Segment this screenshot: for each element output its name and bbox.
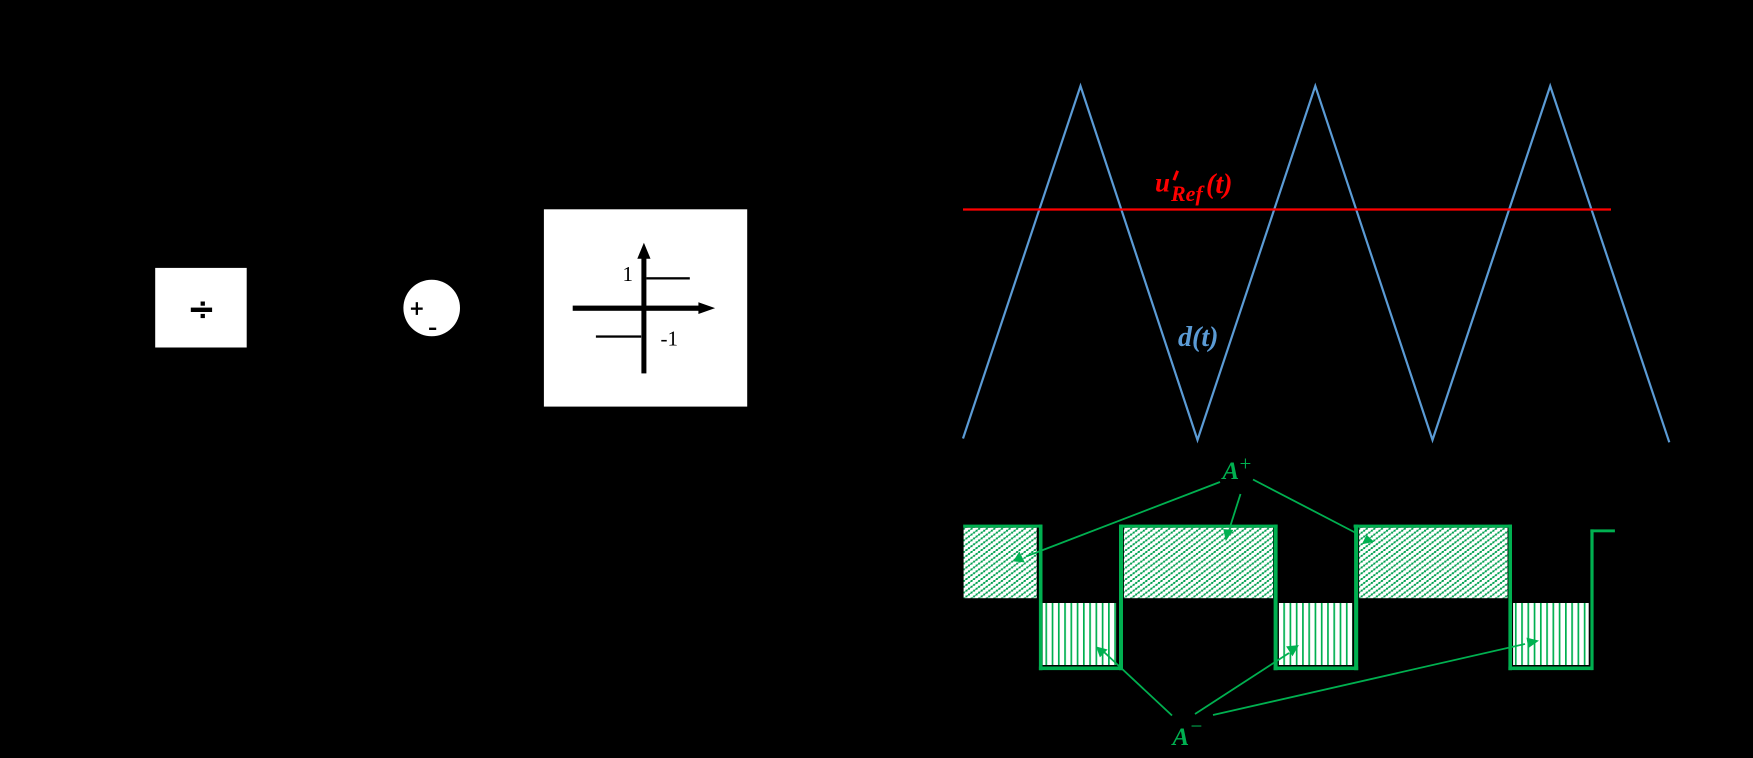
PWM falling edge T3 (1274, 525, 1278, 671)
label A- (1171, 714, 1203, 751)
divider block U1 (box with division sign) (155, 268, 247, 348)
PWM bottom pulse B3 (vertical hatch area A-) (1513, 603, 1589, 665)
svg-text:1: 1 (623, 262, 634, 286)
vertical axis (641, 255, 646, 373)
-1 saturation level line (596, 335, 641, 337)
svg-text:u: u (1155, 168, 1170, 198)
PWM P1 top border (963, 525, 1042, 528)
PWM B3 bottom border (1508, 667, 1592, 671)
A- leader line to B1 (1096, 647, 1172, 716)
PWM top pulse P2 (diagonal hatch area A+) (1124, 528, 1273, 599)
PWM top pulse P1 (diagonal hatch area A+) (964, 528, 1037, 599)
PWM bottom pulse B1 (vertical hatch area A-) (1043, 603, 1116, 665)
PWM P3 top border (1354, 525, 1512, 528)
PWM top pulse P3 (diagonal hatch area A+) (1359, 528, 1507, 599)
PWM rising edge T6 (1590, 529, 1593, 670)
horizontal axis (573, 306, 700, 311)
A+ leader line to P2 (1223, 494, 1240, 541)
reference line u'Ref(t) (963, 208, 1611, 210)
A+ leader line to P1 (1013, 482, 1220, 562)
PWM bottom pulse B2 (vertical hatch area A-) (1279, 603, 1352, 665)
A- leader line to B3 (1213, 638, 1539, 715)
svg-text:A: A (1171, 724, 1190, 751)
PWM B2 bottom border (1274, 667, 1359, 671)
PWM falling edge T5 (1508, 525, 1512, 671)
PWM B1 bottom border (1039, 667, 1123, 671)
svg-text:−: − (1191, 714, 1203, 738)
PWM P2 top border (1119, 525, 1278, 528)
svg-text:A: A (1221, 458, 1240, 485)
comparator block U2 (saturation characteristic) (544, 209, 747, 406)
A- leader line to B2 (1195, 645, 1299, 714)
+1 saturation level line (646, 277, 689, 279)
PWM rising edge T2 (1119, 525, 1123, 671)
label u'Ref(t) (1155, 168, 1232, 207)
svg-text:(t): (t) (1206, 169, 1232, 200)
svg-text:-1: -1 (661, 327, 679, 351)
PWM final top stub (1590, 529, 1615, 532)
summing junction S1 (403, 280, 460, 337)
svg-text:Ref: Ref (1170, 181, 1205, 206)
carrier triangle wave d(t) (963, 86, 1669, 442)
PWM falling edge T1 (1039, 525, 1043, 671)
A+ leader line to P3 (1253, 480, 1374, 545)
PWM rising edge T4 (1354, 525, 1358, 671)
svg-text:+: + (1240, 452, 1252, 476)
label A+ (1221, 452, 1252, 486)
svg-text:d(t): d(t) (1178, 322, 1218, 353)
